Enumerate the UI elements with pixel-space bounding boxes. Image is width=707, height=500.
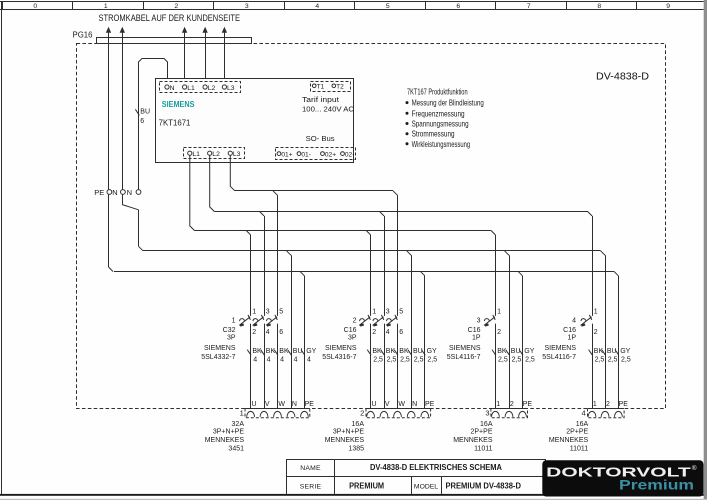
meter terminal T2 bbox=[332, 84, 336, 88]
svg-text:BK: BK bbox=[386, 348, 396, 355]
arrow PE feed bbox=[106, 27, 111, 33]
ruler top line bbox=[0, 1, 704, 3]
meter terminal N bbox=[165, 85, 169, 89]
socket outlet 3 box bbox=[453, 401, 532, 452]
svg-text:L1: L1 bbox=[192, 151, 200, 158]
svg-text:Strommessung: Strommessung bbox=[412, 130, 455, 139]
wire G2 L1 upper bbox=[370, 235, 372, 316]
ruler tick 9 bbox=[636, 2, 638, 10]
wire G1 L1 lower bbox=[250, 324, 252, 409]
svg-text:5SL4116-7: 5SL4116-7 bbox=[447, 354, 481, 361]
svg-text:BK: BK bbox=[594, 348, 604, 355]
ruler tick 7 bbox=[495, 2, 497, 10]
svg-text:SIEMENS: SIEMENS bbox=[204, 345, 236, 352]
wire N bend chamfer bbox=[139, 246, 144, 251]
terminal N 1 bbox=[121, 190, 126, 195]
wire tick BK 495.4 bbox=[492, 350, 496, 356]
bus L3 bbox=[235, 190, 393, 192]
svg-text:BK: BK bbox=[279, 348, 289, 355]
svg-text:3P+N+PE: 3P+N+PE bbox=[333, 428, 364, 435]
wire G1 PE bbox=[304, 276, 306, 409]
wire tick BU 291 bbox=[288, 350, 292, 356]
arrow L1 feed bbox=[182, 27, 187, 33]
svg-text:BK: BK bbox=[497, 348, 507, 355]
svg-text:16A: 16A bbox=[576, 421, 589, 428]
meter U1 Siemens 7KT1671 body bbox=[156, 79, 354, 163]
svg-text:SIEMENS: SIEMENS bbox=[325, 345, 357, 352]
svg-text:11011: 11011 bbox=[474, 445, 493, 452]
svg-text:4: 4 bbox=[315, 3, 319, 10]
meter top terminal block N L1 L2 L3 bbox=[160, 82, 241, 93]
svg-text:2: 2 bbox=[353, 318, 357, 325]
svg-text:Tarif input: Tarif input bbox=[302, 95, 340, 104]
wire G2 L2 lower bbox=[384, 324, 386, 409]
svg-text:3P+N+PE: 3P+N+PE bbox=[213, 428, 244, 435]
svg-text:V: V bbox=[385, 401, 390, 408]
svg-text:02-: 02- bbox=[345, 151, 355, 158]
enclosure dashed border bbox=[77, 44, 666, 409]
bullet Strommessung bbox=[406, 132, 409, 135]
svg-text:3: 3 bbox=[245, 3, 249, 10]
socket outlet 2 box bbox=[325, 401, 435, 452]
wire G1 L1 upper bbox=[250, 235, 252, 316]
svg-text:2,5: 2,5 bbox=[512, 357, 522, 364]
svg-text:2: 2 bbox=[510, 401, 514, 408]
wire PE chamfer bbox=[109, 267, 114, 272]
tap L1 to Q1 bbox=[246, 230, 251, 235]
svg-text:PE: PE bbox=[619, 401, 629, 408]
svg-text:®: ® bbox=[692, 464, 697, 472]
wire G3 PE bbox=[522, 276, 524, 409]
tap N socket 2 bbox=[407, 251, 412, 256]
meter terminal L2 out bbox=[208, 151, 212, 155]
breaker Q4 C16 1P SIEMENS 5SL4116-7 bbox=[542, 309, 597, 362]
svg-text:5: 5 bbox=[386, 3, 390, 10]
svg-text:1: 1 bbox=[497, 309, 501, 316]
svg-text:3: 3 bbox=[485, 408, 489, 417]
table left bbox=[286, 459, 288, 494]
svg-text:2,5: 2,5 bbox=[498, 357, 508, 364]
svg-text:0: 0 bbox=[33, 3, 37, 10]
svg-text:4: 4 bbox=[294, 357, 298, 364]
socket contact N bbox=[287, 411, 295, 416]
bus N bbox=[143, 250, 601, 252]
wire G3 L upper bbox=[495, 235, 497, 316]
svg-text:1: 1 bbox=[594, 309, 598, 316]
socket contact PE bbox=[301, 411, 309, 416]
terminal PE bbox=[107, 190, 112, 195]
svg-text:5SL4332-7: 5SL4332-7 bbox=[201, 354, 235, 361]
wire G2 L2 upper bbox=[384, 216, 386, 316]
wire tick BK 264 bbox=[261, 350, 265, 356]
svg-text:2,5: 2,5 bbox=[414, 357, 424, 364]
title block table bbox=[287, 459, 546, 494]
wire tick GY 618.4 bbox=[615, 350, 619, 356]
svg-text:5SL4316-7: 5SL4316-7 bbox=[322, 354, 356, 361]
wire tick BU 509 bbox=[506, 350, 510, 356]
bullet Messung der Blindleistung bbox=[406, 101, 409, 104]
tap L2 to Q2 bbox=[380, 211, 385, 216]
svg-text:8: 8 bbox=[597, 3, 601, 10]
wire L1 feed vertical bbox=[184, 30, 186, 85]
ruler tick 2 bbox=[143, 2, 145, 10]
wire G2 L3 lower bbox=[397, 324, 399, 409]
wire G1 L2 lower bbox=[264, 324, 266, 409]
socket contact PE bbox=[615, 411, 623, 416]
svg-text:7KT167 Produktfunktion: 7KT167 Produktfunktion bbox=[407, 88, 468, 97]
svg-text:STROMKABEL AUF DER KUNDENSEITE: STROMKABEL AUF DER KUNDENSEITE bbox=[99, 13, 241, 24]
socket box dashed sides bbox=[245, 409, 310, 418]
meter terminal T1 bbox=[312, 84, 316, 88]
wire G1 L2 upper bbox=[264, 216, 266, 316]
svg-text:L3: L3 bbox=[227, 85, 235, 92]
table right bbox=[545, 459, 547, 494]
svg-text:N: N bbox=[112, 188, 117, 197]
svg-text:Frequenzmessung: Frequenzmessung bbox=[412, 109, 465, 118]
tap N socket 3 bbox=[505, 251, 510, 256]
svg-text:4: 4 bbox=[307, 357, 311, 364]
svg-text:2,5: 2,5 bbox=[373, 357, 383, 364]
logo DOKTORVOLT Premium bbox=[542, 460, 703, 496]
svg-text:SIEMENS: SIEMENS bbox=[162, 100, 195, 109]
svg-text:PE: PE bbox=[425, 401, 435, 408]
svg-text:2: 2 bbox=[606, 401, 610, 408]
svg-text:SERIE: SERIE bbox=[300, 483, 322, 490]
svg-text:MENNEKES: MENNEKES bbox=[205, 437, 245, 444]
svg-text:BK: BK bbox=[266, 348, 276, 355]
svg-text:16A: 16A bbox=[352, 421, 365, 428]
svg-text:3P: 3P bbox=[227, 335, 236, 342]
svg-text:9: 9 bbox=[666, 3, 670, 10]
tap PE socket 1 bbox=[300, 271, 305, 276]
svg-text:2: 2 bbox=[594, 329, 598, 336]
breaker Q3 C16 1P SIEMENS 5SL4116-7 bbox=[447, 309, 501, 362]
wire G4 L lower bbox=[592, 324, 594, 409]
svg-text:4: 4 bbox=[267, 357, 271, 364]
cable gland strip PG16 bbox=[97, 38, 252, 44]
svg-text:PREMIUM DV-4838-D: PREMIUM DV-4838-D bbox=[445, 482, 521, 491]
svg-text:BU: BU bbox=[140, 109, 150, 116]
meter terminal 01+ bbox=[277, 152, 281, 156]
svg-text:L3: L3 bbox=[233, 151, 241, 158]
ruler bottom line bbox=[0, 9, 704, 11]
arrow N feed bbox=[120, 27, 125, 33]
svg-text:PREMIUM: PREMIUM bbox=[349, 482, 384, 491]
svg-text:BU: BU bbox=[511, 348, 521, 355]
svg-text:1385: 1385 bbox=[348, 445, 364, 452]
svg-text:2,5: 2,5 bbox=[387, 357, 397, 364]
wire PE feed vertical bbox=[108, 30, 110, 267]
wire G3 L lower bbox=[495, 324, 497, 409]
meter SO-bus terminal block bbox=[276, 148, 356, 160]
svg-text:1: 1 bbox=[372, 309, 376, 316]
table divider 3 bbox=[441, 477, 443, 494]
svg-text:N: N bbox=[170, 85, 175, 92]
svg-text:PE: PE bbox=[94, 188, 104, 197]
wire G4 PE bbox=[618, 276, 620, 409]
meter terminal L3 out bbox=[228, 151, 232, 155]
svg-text:2: 2 bbox=[174, 3, 178, 10]
socket contact PE bbox=[421, 411, 429, 417]
tap L2 to Q1 bbox=[260, 211, 265, 216]
svg-text:11011: 11011 bbox=[570, 445, 589, 452]
svg-text:PG16: PG16 bbox=[73, 30, 93, 40]
socket box dashed sides bbox=[588, 409, 625, 418]
socket box top bbox=[366, 408, 431, 410]
svg-text:N: N bbox=[127, 188, 132, 197]
wire G2 PE bbox=[424, 276, 426, 409]
ruler tick 6 bbox=[425, 2, 427, 10]
svg-text:2,5: 2,5 bbox=[621, 357, 631, 364]
ruler tick 5 bbox=[354, 2, 356, 10]
svg-text:DV-4838-D ELEKTRISCHES SCHEMA: DV-4838-D ELEKTRISCHES SCHEMA bbox=[370, 463, 502, 472]
svg-text:GY: GY bbox=[306, 348, 316, 355]
socket contact PE bbox=[519, 411, 527, 417]
table top bbox=[287, 459, 546, 461]
svg-text:C32: C32 bbox=[223, 327, 236, 334]
socket contact 2 bbox=[505, 411, 513, 417]
svg-text:1: 1 bbox=[593, 401, 597, 408]
socket box top bbox=[245, 408, 310, 410]
page right edge shadow bbox=[704, 0, 707, 500]
svg-text:GY: GY bbox=[620, 348, 630, 355]
svg-text:MENNEKES: MENNEKES bbox=[453, 437, 493, 444]
svg-text:2,5: 2,5 bbox=[400, 357, 410, 364]
svg-text:2,5: 2,5 bbox=[595, 357, 605, 364]
table divider 1 bbox=[334, 459, 336, 494]
svg-text:N: N bbox=[292, 401, 297, 408]
meter terminal 02+ bbox=[321, 152, 325, 156]
tap PE socket 2 bbox=[420, 271, 425, 276]
ruler tick 3 bbox=[213, 2, 215, 10]
wire L2 feed vertical bbox=[205, 30, 207, 85]
svg-text:1: 1 bbox=[232, 318, 236, 325]
svg-text:1: 1 bbox=[104, 3, 108, 10]
tap L3 to Q1 bbox=[273, 191, 278, 196]
socket contact U bbox=[247, 411, 255, 417]
socket contact V bbox=[260, 411, 268, 416]
wire G4 L upper bbox=[592, 216, 594, 316]
svg-text:5: 5 bbox=[279, 309, 283, 316]
socket contact 1 bbox=[588, 411, 596, 417]
tap N socket 1 bbox=[287, 251, 292, 256]
svg-text:SO- Bus: SO- Bus bbox=[306, 134, 335, 143]
tap PE socket 3 bbox=[518, 271, 523, 276]
svg-text:01-: 01- bbox=[301, 151, 311, 158]
wire meter L2 drop bbox=[210, 155, 215, 211]
svg-text:3: 3 bbox=[266, 309, 270, 316]
wire L3 feed vertical bbox=[224, 30, 226, 85]
svg-text:2P+PE: 2P+PE bbox=[566, 428, 588, 435]
svg-text:2,5: 2,5 bbox=[608, 357, 618, 364]
ruler tick 4 bbox=[284, 2, 286, 10]
meter terminal L3 bbox=[222, 85, 226, 89]
bus L2 bbox=[214, 211, 587, 213]
socket outlet 4 box bbox=[549, 401, 628, 452]
meter terminal L2 bbox=[203, 85, 207, 89]
wire tick BK 384 bbox=[381, 350, 385, 356]
bus L1 bbox=[194, 230, 491, 232]
svg-text:L2: L2 bbox=[212, 151, 220, 158]
wire tick BK 397.5 bbox=[394, 350, 398, 356]
wire G2 L3 upper bbox=[397, 195, 399, 316]
socket box dashed sides bbox=[491, 409, 528, 418]
svg-text:02+: 02+ bbox=[325, 151, 336, 158]
tap L1 to Q2 bbox=[366, 230, 371, 235]
wire tick GY 304.4 bbox=[301, 350, 305, 356]
svg-text:BU: BU bbox=[607, 348, 617, 355]
wire tick BU 411.2 bbox=[408, 350, 412, 356]
meter bottom terminal block L1 L2 L3 bbox=[184, 148, 245, 159]
page bottom border bbox=[0, 494, 707, 496]
svg-text:Messung der Blindleistung: Messung der Blindleistung bbox=[412, 99, 484, 108]
svg-text:T1: T1 bbox=[317, 83, 325, 90]
svg-text:4: 4 bbox=[280, 357, 284, 364]
wire meter L3 drop bbox=[230, 155, 235, 191]
arrow L3 feed bbox=[222, 27, 227, 33]
svg-text:PE: PE bbox=[305, 401, 315, 408]
svg-text:BK: BK bbox=[372, 348, 382, 355]
socket outlet 1 box bbox=[205, 401, 315, 452]
terminal N 2 bbox=[136, 190, 141, 195]
svg-text:BU: BU bbox=[293, 348, 303, 355]
wire label tick BU bbox=[135, 109, 139, 115]
svg-text:6: 6 bbox=[456, 3, 460, 10]
wire N feed jog diagonal bbox=[122, 205, 138, 210]
svg-text:2: 2 bbox=[372, 329, 376, 336]
wire tick BK 370.6 bbox=[367, 350, 371, 356]
svg-text:U: U bbox=[252, 401, 257, 408]
svg-text:GY: GY bbox=[427, 348, 437, 355]
elbow PE socket 4 bbox=[614, 271, 619, 276]
wire G2 N bbox=[411, 255, 413, 408]
table divider 2 bbox=[411, 477, 413, 494]
wire G1 L3 lower bbox=[277, 324, 279, 409]
svg-text:L1: L1 bbox=[187, 85, 195, 92]
socket box dashed sides bbox=[366, 409, 431, 418]
socket contact W bbox=[394, 411, 402, 416]
wire N drop to bus bbox=[138, 210, 140, 247]
svg-text:5: 5 bbox=[399, 309, 403, 316]
socket contact N bbox=[407, 411, 415, 417]
svg-text:4: 4 bbox=[582, 408, 586, 417]
svg-text:4: 4 bbox=[253, 357, 257, 364]
wire tick BK 277.5 bbox=[274, 350, 278, 356]
wire G1 L3 upper bbox=[277, 195, 279, 316]
wire G4 N bbox=[605, 255, 607, 408]
socket box top bbox=[491, 408, 528, 410]
svg-text:PE: PE bbox=[523, 401, 533, 408]
svg-text:5SL4116-7: 5SL4116-7 bbox=[542, 354, 576, 361]
svg-text:Spannungsmessung: Spannungsmessung bbox=[412, 120, 469, 129]
wire G1 N bbox=[291, 255, 293, 408]
elbow L2 to Q4 bbox=[588, 211, 593, 216]
wire meter L1 drop bbox=[190, 155, 195, 230]
elbow L3 to Q2 bbox=[393, 191, 398, 196]
svg-text:32A: 32A bbox=[232, 421, 245, 428]
svg-text:MENNEKES: MENNEKES bbox=[325, 437, 365, 444]
svg-text:MENNEKES: MENNEKES bbox=[549, 437, 589, 444]
svg-text:GY: GY bbox=[524, 348, 534, 355]
svg-text:BU: BU bbox=[413, 348, 423, 355]
svg-text:100... 240V AC: 100... 240V AC bbox=[302, 105, 355, 114]
bullet Frequenzmessung bbox=[406, 112, 409, 115]
svg-text:SIEMENS: SIEMENS bbox=[544, 345, 576, 352]
meter terminal 02- bbox=[341, 152, 345, 156]
svg-text:3: 3 bbox=[386, 309, 390, 316]
svg-text:Premium: Premium bbox=[619, 477, 694, 493]
svg-text:2: 2 bbox=[360, 408, 364, 417]
wire tick GY 424.8 bbox=[421, 350, 425, 356]
svg-text:C16: C16 bbox=[468, 327, 481, 334]
svg-text:C16: C16 bbox=[563, 327, 576, 334]
breaker Q1 C32 3P SIEMENS 5SL4332-7 bbox=[201, 309, 283, 362]
elbow L1 to Q3 bbox=[491, 230, 496, 235]
meter terminal L1 bbox=[183, 85, 187, 89]
wire G3 N bbox=[509, 255, 511, 408]
svg-text:T2: T2 bbox=[336, 83, 344, 90]
page left border bbox=[1, 2, 3, 496]
svg-text:3451: 3451 bbox=[228, 445, 244, 452]
wire tick BK 592 bbox=[589, 350, 593, 356]
svg-text:NAME: NAME bbox=[300, 465, 321, 472]
svg-text:16A: 16A bbox=[480, 421, 493, 428]
svg-text:3: 3 bbox=[477, 318, 481, 325]
svg-text:3P: 3P bbox=[348, 335, 357, 342]
socket contact U bbox=[367, 411, 375, 416]
svg-text:4: 4 bbox=[572, 318, 576, 325]
bullet Spannungsmessung bbox=[406, 122, 409, 125]
svg-text:2P+PE: 2P+PE bbox=[471, 428, 493, 435]
breaker Q2 C16 3P SIEMENS 5SL4316-7 bbox=[322, 309, 403, 362]
svg-text:1: 1 bbox=[252, 309, 256, 316]
arrow L2 feed bbox=[202, 27, 207, 33]
socket contact W bbox=[274, 411, 282, 416]
svg-text:2: 2 bbox=[252, 329, 256, 336]
svg-text:MODEL: MODEL bbox=[414, 483, 438, 490]
wire tick GY 522.5 bbox=[519, 350, 523, 356]
svg-text:N: N bbox=[412, 401, 417, 408]
ruler tick 1 bbox=[72, 2, 74, 10]
svg-text:2: 2 bbox=[497, 329, 501, 336]
elbow N socket 4 bbox=[601, 251, 606, 256]
svg-text:6: 6 bbox=[399, 329, 403, 336]
ruler tick 8 bbox=[566, 2, 568, 10]
svg-text:1P: 1P bbox=[472, 335, 481, 342]
svg-text:C16: C16 bbox=[344, 327, 357, 334]
bullet Wirkleistungsmessung bbox=[406, 142, 409, 145]
svg-text:W: W bbox=[278, 401, 285, 408]
svg-text:1: 1 bbox=[240, 408, 244, 417]
svg-text:L2: L2 bbox=[208, 85, 216, 92]
socket box top bbox=[588, 408, 625, 410]
svg-text:4: 4 bbox=[266, 329, 270, 336]
wire meter N to terminal rail bbox=[139, 59, 168, 195]
bus PE bbox=[114, 271, 614, 273]
svg-text:2,5: 2,5 bbox=[525, 357, 535, 364]
wire tick BK 250.6 bbox=[247, 350, 251, 356]
wire G2 L1 lower bbox=[370, 324, 372, 409]
socket contact 2 bbox=[601, 411, 609, 416]
page bottom edge shadow bbox=[0, 499, 707, 500]
svg-text:2,5: 2,5 bbox=[427, 357, 437, 364]
wire N feed vertical bbox=[122, 30, 124, 205]
svg-text:BK: BK bbox=[252, 348, 262, 355]
svg-text:1: 1 bbox=[496, 401, 500, 408]
svg-text:BK: BK bbox=[399, 348, 409, 355]
svg-text:7KT1671: 7KT1671 bbox=[159, 119, 191, 128]
svg-text:7: 7 bbox=[527, 3, 531, 10]
